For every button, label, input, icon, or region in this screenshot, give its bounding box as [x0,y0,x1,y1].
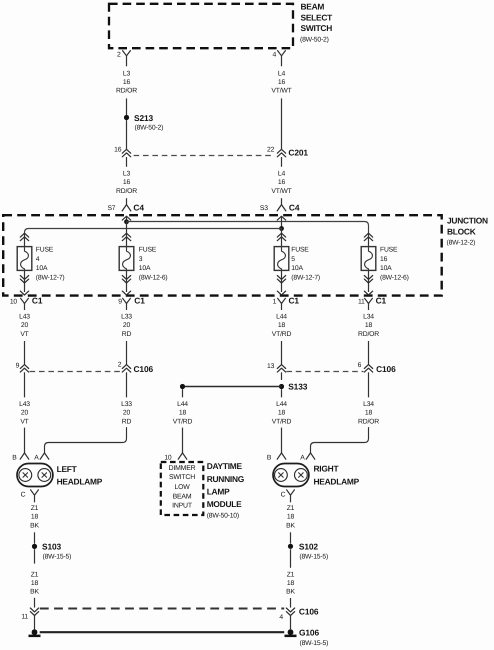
svg-text:L33: L33 [121,401,132,408]
svg-text:L3: L3 [123,171,131,178]
wire S133 down stub [281,389,283,397]
svg-text:Z1: Z1 [287,505,295,512]
wire Z1 to C106 bottom [290,598,292,608]
svg-text:FUSE: FUSE [139,247,157,254]
fuse 16 lower connector [368,270,370,292]
beam select switch box [109,4,293,48]
svg-text:2: 2 [118,362,122,369]
svg-text:L3: L3 [123,70,131,77]
svg-text:18: 18 [278,322,286,329]
svg-text:18: 18 [31,514,39,521]
svg-text:G106: G106 [299,627,319,637]
svg-text:RD: RD [122,331,132,338]
svg-text:FUSE: FUSE [291,247,309,254]
svg-text:18: 18 [365,322,373,329]
svg-text:(8W-15-5): (8W-15-5) [300,640,329,647]
wire L44 to C106 [281,341,283,365]
wire L4 below C201 [281,157,283,167]
svg-text:11: 11 [358,298,365,305]
fuse 4 lower connector [24,270,26,292]
svg-text:LOW: LOW [174,484,190,491]
svg-text:(8W-15-5): (8W-15-5) [43,553,72,560]
upper bus wire S7 to fuse 16 [127,222,369,234]
wire S133 bus to module branch [183,386,282,388]
svg-text:C1: C1 [376,295,387,305]
svg-text:(8W-12-7): (8W-12-7) [36,274,65,281]
svg-text:L43: L43 [19,401,30,408]
svg-text:13: 13 [267,363,275,370]
svg-text:Z1: Z1 [31,505,39,512]
wire S103 down [34,549,36,563]
wire S7 down to fuse 3 [126,222,128,247]
svg-text:SWITCH: SWITCH [169,474,195,481]
fuse 3 upper connector [122,233,130,237]
svg-text:C106: C106 [376,364,396,374]
svg-text:BEAM: BEAM [173,493,192,500]
svg-text:C: C [281,492,286,499]
svg-text:10A: 10A [36,265,48,272]
svg-text:4: 4 [279,614,283,621]
svg-text:C4: C4 [133,203,144,213]
svg-text:C4: C4 [289,203,300,213]
svg-text:RIGHT: RIGHT [314,464,340,474]
wire L43 to left headlamp B [24,428,26,453]
svg-text:10A: 10A [380,265,392,272]
wire module branch down stub [182,389,184,397]
svg-text:FUSE: FUSE [380,247,398,254]
svg-text:INPUT: INPUT [172,502,193,509]
ground node left [32,629,38,635]
svg-text:10: 10 [164,455,172,462]
svg-text:18: 18 [287,580,295,587]
svg-text:JUNCTION: JUNCTION [447,215,488,225]
svg-text:VT: VT [20,418,28,425]
svg-text:Z1: Z1 [287,572,295,579]
svg-text:C106: C106 [134,364,154,374]
svg-text:16: 16 [123,179,131,186]
splice S103 [32,544,37,549]
fuse F5 [274,247,289,271]
wire L34 bend to right headlamp A [311,428,369,453]
svg-text:5: 5 [291,256,295,263]
svg-text:3: 3 [139,256,143,263]
fuse 5 lower connector [281,270,283,292]
svg-text:SWITCH: SWITCH [301,23,333,33]
junction node on S3 wire [279,226,284,231]
wire L44 to module pin 10 [182,428,184,453]
svg-text:16: 16 [278,179,286,186]
svg-text:(8W-50-2): (8W-50-2) [300,37,329,44]
wire L4 to C4 [281,198,283,204]
svg-text:A: A [34,455,39,462]
splice S133 [279,384,284,389]
svg-text:18: 18 [287,514,295,521]
wire L44 to right headlamp B [281,428,283,453]
wire Z1 to S103 [34,532,36,543]
svg-text:16: 16 [114,147,122,154]
wire L43 to C106 [24,341,26,365]
wire L3 below C201 [126,157,128,167]
svg-text:FUSE: FUSE [36,247,54,254]
wire S102 down [290,549,292,568]
svg-text:16: 16 [123,79,131,86]
svg-text:C201: C201 [288,147,308,157]
svg-text:10: 10 [10,298,18,305]
wire S3 down to fuse 5 [281,229,283,247]
connector C201 dashed line [134,155,275,157]
svg-text:RD/OR: RD/OR [116,188,137,195]
junction dot module branch [180,384,185,389]
wire L3 upper stub [126,56,128,67]
C4 S3 male arrow [277,216,285,220]
svg-text:MODULE: MODULE [207,499,242,509]
svg-text:L44: L44 [177,401,188,408]
svg-text:SELECT: SELECT [301,12,334,22]
C4 S7 male arrow [122,216,130,220]
svg-text:BEAM: BEAM [301,2,325,12]
svg-text:L33: L33 [121,314,132,321]
fuse 4 upper connector [20,233,28,237]
splice S213 [124,115,129,120]
wire to ground G106 [290,616,292,630]
fuse F16 [361,247,376,271]
wire to ground node left [34,616,36,630]
svg-text:VT/RD: VT/RD [272,418,292,425]
svg-text:6: 6 [358,362,362,369]
wire L33 to C106 [126,341,128,365]
wire S213 to C201 [126,120,128,149]
bottom dashed line C106 [40,608,284,610]
svg-text:20: 20 [21,410,29,417]
svg-text:11: 11 [21,614,28,621]
lower bus wire S3 to fuse 4 [25,229,282,234]
svg-text:RD/OR: RD/OR [116,88,137,95]
svg-text:RD/OR: RD/OR [358,331,379,338]
wire L33 bend to left headlamp A [45,428,127,453]
ground G106 [288,629,294,635]
wire Z1 to S102 [290,532,292,543]
daytime running lamp module box [161,462,204,515]
svg-text:C1: C1 [32,295,43,305]
svg-text:Z1: Z1 [31,572,39,579]
svg-text:C1: C1 [289,295,300,305]
wire L3 to splice S213 [126,98,128,115]
left headlamp [17,464,53,487]
wire Z1 to C106 left [34,598,36,608]
svg-text:RD/OR: RD/OR [358,418,379,425]
svg-text:RD: RD [122,418,132,425]
svg-text:L4: L4 [278,70,286,77]
svg-text:9: 9 [16,362,20,369]
svg-text:VT/WT: VT/WT [271,188,291,195]
svg-text:10A: 10A [291,265,303,272]
svg-text:DIMMER: DIMMER [169,465,196,472]
svg-text:LAMP: LAMP [207,487,230,497]
svg-text:C106: C106 [299,607,319,617]
splice S102 [288,544,293,549]
svg-text:BLOCK: BLOCK [447,226,476,236]
junction block box [3,215,442,295]
svg-text:C: C [21,492,26,499]
connector C106 left dashed line [30,371,122,373]
svg-text:22: 22 [267,147,275,154]
svg-text:BK: BK [286,522,295,529]
fuse 5 upper connector [277,233,285,237]
svg-text:L44: L44 [276,314,287,321]
svg-text:(8W-12-2): (8W-12-2) [447,239,476,246]
right headlamp [273,464,309,487]
svg-text:L34: L34 [363,401,374,408]
svg-text:18: 18 [278,410,286,417]
svg-text:S133: S133 [288,381,308,391]
svg-text:HEADLAMP: HEADLAMP [314,476,360,486]
svg-text:16: 16 [278,79,286,86]
fuse F3 [119,247,134,271]
fuse F4 [17,247,32,271]
svg-text:20: 20 [123,410,131,417]
svg-text:4: 4 [36,256,40,263]
svg-text:VT/RD: VT/RD [272,331,292,338]
svg-text:S213: S213 [134,113,154,123]
wire L4 to C201 [281,98,283,149]
svg-text:HEADLAMP: HEADLAMP [57,476,103,486]
svg-text:LEFT: LEFT [57,464,78,474]
svg-text:A: A [300,455,305,462]
wire L4 upper stub [281,56,283,67]
svg-text:BK: BK [30,522,39,529]
svg-text:BK: BK [286,589,295,596]
svg-text:(8W-12-7): (8W-12-7) [291,274,320,281]
svg-text:(8W-15-5): (8W-15-5) [299,553,328,560]
wire L3 to C4 [126,198,128,204]
svg-text:B: B [12,455,17,462]
svg-text:9: 9 [118,298,122,305]
svg-text:4: 4 [273,51,277,58]
ground bus wire [40,631,285,633]
svg-text:BK: BK [30,589,39,596]
wire L34 to C106 [368,341,370,365]
junction node on S7 wire [124,219,129,224]
svg-text:(8W-50-2): (8W-50-2) [135,125,164,132]
svg-text:S102: S102 [299,541,319,551]
svg-text:S7: S7 [107,205,115,212]
svg-text:L4: L4 [278,171,286,178]
svg-text:S3: S3 [260,205,268,212]
svg-text:18: 18 [365,410,373,417]
svg-text:20: 20 [123,322,131,329]
svg-text:L34: L34 [363,314,374,321]
svg-text:DAYTIME: DAYTIME [207,461,243,471]
svg-text:RUNNING: RUNNING [207,474,244,484]
svg-text:18: 18 [31,580,39,587]
svg-text:L43: L43 [19,314,30,321]
svg-text:20: 20 [21,322,29,329]
svg-text:(8W-12-6): (8W-12-6) [139,274,168,281]
svg-text:VT/WT: VT/WT [271,88,291,95]
svg-text:1: 1 [273,298,277,305]
svg-text:B: B [267,455,272,462]
svg-text:L44: L44 [276,401,287,408]
svg-text:10A: 10A [139,265,151,272]
connector C106 right dashed line [286,371,363,373]
svg-text:(8W-50-10): (8W-50-10) [207,513,239,520]
svg-text:C1: C1 [134,295,145,305]
svg-text:VT: VT [20,331,28,338]
svg-text:2: 2 [117,51,121,58]
svg-text:VT/RD: VT/RD [173,418,193,425]
fuse 16 upper connector [364,233,372,237]
svg-text:(8W-12-6): (8W-12-6) [380,274,409,281]
fuse 3 lower connector [126,270,128,292]
svg-text:18: 18 [179,410,187,417]
svg-text:16: 16 [380,256,388,263]
svg-text:S103: S103 [42,541,62,551]
